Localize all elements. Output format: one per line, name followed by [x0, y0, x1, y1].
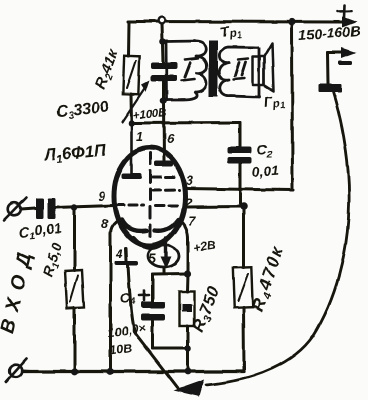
- svg-text:2: 2: [184, 196, 192, 210]
- svg-text:С10,01: С10,01: [18, 219, 63, 243]
- svg-text:R15,0: R15,0: [39, 240, 67, 279]
- svg-text:3: 3: [186, 174, 193, 188]
- svg-text:R241к: R241к: [92, 46, 124, 92]
- svg-text:Л16Ф1П: Л16Ф1П: [42, 141, 108, 168]
- svg-text:+100В: +100В: [132, 108, 167, 122]
- svg-text:10В: 10В: [108, 341, 133, 358]
- svg-text:7: 7: [188, 214, 196, 228]
- svg-text:Тр1: Тр1: [219, 21, 242, 44]
- svg-text:5: 5: [149, 251, 157, 266]
- svg-text:8: 8: [101, 217, 108, 231]
- svg-text:С33300: С33300: [55, 99, 110, 123]
- svg-text:+2В: +2В: [192, 238, 216, 255]
- svg-text:6: 6: [167, 132, 175, 146]
- svg-text:1: 1: [136, 130, 143, 144]
- svg-text:R4470к: R4470к: [247, 242, 289, 314]
- svg-text:100,0×: 100,0×: [106, 321, 147, 340]
- svg-text:ВХОД: ВХОД: [0, 242, 38, 336]
- svg-text:С4: С4: [119, 289, 136, 308]
- svg-text:С2: С2: [257, 141, 273, 160]
- svg-text:9: 9: [98, 190, 105, 204]
- svg-text:0,01: 0,01: [251, 162, 280, 180]
- svg-text:4: 4: [115, 247, 123, 261]
- svg-text:150-160В: 150-160В: [298, 22, 361, 43]
- svg-text:Гр1: Гр1: [262, 91, 286, 114]
